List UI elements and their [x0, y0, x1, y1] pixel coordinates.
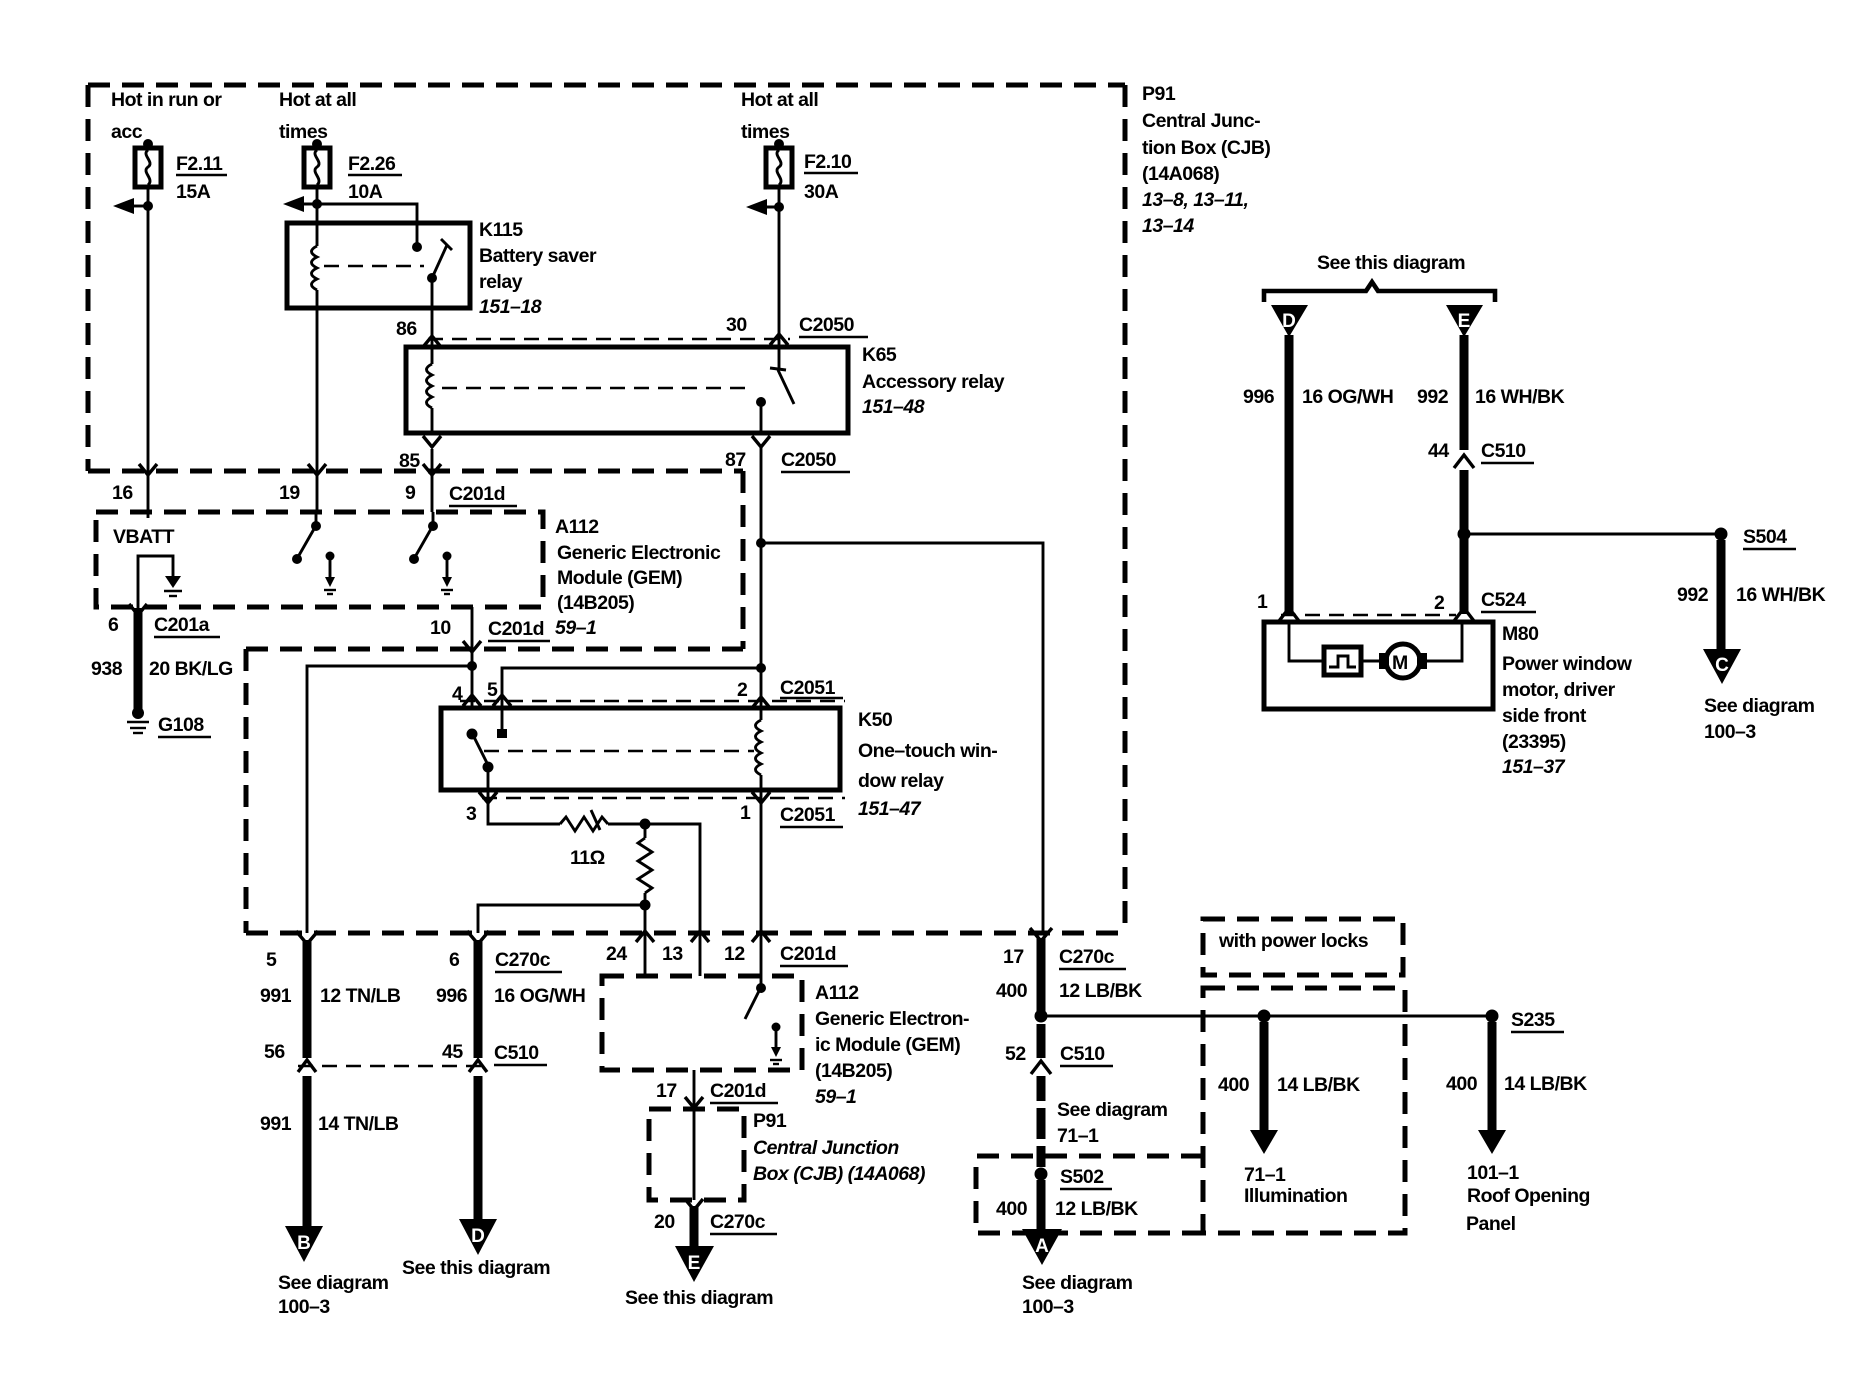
label See diagram 100-3 (under A): [1022, 1272, 1133, 1318]
label F2.26 / 10A: [348, 153, 402, 203]
wire 992 16 WH/BK (S504 to arrow C): [1717, 540, 1726, 651]
wire 938 20 BK/LG to ground: [129, 604, 147, 710]
svg-text:E: E: [1458, 311, 1471, 332]
svg-text:10: 10: [430, 617, 451, 639]
svg-text:C2050: C2050: [799, 314, 855, 336]
label K115 Battery saver relay 151-18: [479, 219, 597, 318]
A112 GEM switch (pin 12): [745, 983, 766, 1019]
svg-text:C270c: C270c: [710, 1211, 766, 1233]
svg-text:44: 44: [1428, 440, 1449, 462]
svg-text:17: 17: [1003, 946, 1024, 968]
svg-text:Hot at all: Hot at all: [741, 89, 818, 111]
node: Hot in run or acc label: [111, 89, 222, 143]
GEM switch at pin 9: [409, 512, 438, 564]
svg-text:Panel: Panel: [1466, 1213, 1516, 1235]
label 400 / 12 LB/BK (lower): [996, 1198, 1138, 1220]
svg-text:3: 3: [466, 803, 477, 825]
resistor 11 ohm (horizontal): [560, 810, 645, 831]
label See this diagram (under E): [625, 1287, 773, 1309]
label pin 9 C201d: [405, 482, 517, 506]
arrow A: [1022, 1229, 1062, 1265]
label 2 C2051: [737, 677, 843, 708]
svg-text:See diagram: See diagram: [1022, 1272, 1133, 1294]
wire 400 14 LB/BK roof opening panel arrow: [1478, 1022, 1506, 1154]
svg-text:100–3: 100–3: [1022, 1296, 1074, 1318]
svg-text:C201d: C201d: [780, 943, 836, 965]
wire 996 16 OG/WH (D to motor pin 1): [1285, 335, 1294, 614]
node junction to S235 branch: [1035, 1010, 1493, 1023]
svg-text:30: 30: [726, 314, 747, 336]
node splice S235: [1486, 1009, 1565, 1032]
svg-text:101–1: 101–1: [1467, 1162, 1519, 1184]
svg-text:F2.26: F2.26: [348, 153, 396, 175]
svg-text:45: 45: [442, 1041, 463, 1063]
wire: junction to C270c pin 6: [478, 905, 645, 933]
motor internal wiring: [1289, 622, 1462, 661]
svg-text:87: 87: [725, 449, 746, 471]
wire 996 16 OG/WH (to arrow D): [467, 931, 489, 1219]
node: Hot at all times label (left): [279, 89, 356, 143]
svg-text:B: B: [297, 1233, 311, 1254]
label 991 / 12 TN/LB: [260, 985, 401, 1007]
label 992 / 16 WH/BK: [1417, 386, 1565, 408]
label 400 / 14 LB/BK (roof): [1446, 1073, 1587, 1095]
wire: K65 pin 87 down to K50 pin 2: [760, 447, 763, 708]
svg-text:56: 56: [264, 1041, 285, 1063]
wire: GEM pin 10 down to K50 pin 4: [463, 607, 481, 708]
wire 992 16 WH/BK (E to motor pin 2): [1454, 335, 1474, 614]
svg-text:14 TN/LB: 14 TN/LB: [318, 1113, 399, 1135]
svg-text:12 LB/BK: 12 LB/BK: [1059, 980, 1142, 1002]
label 45 C510: [442, 1041, 547, 1065]
label K50 One-touch window relay 151-47: [858, 709, 997, 820]
fuse F2.26 10A: [304, 139, 330, 187]
power locks option dashed box: [1203, 988, 1405, 1233]
label A112 Generic Electronic Module (GEM) top: [555, 516, 721, 639]
svg-text:(14A068): (14A068): [1142, 163, 1219, 185]
label K50 pin 4: [452, 683, 463, 705]
svg-text:151–18: 151–18: [479, 296, 542, 318]
node junction illumination branch: [1258, 1010, 1271, 1023]
svg-text:71–1: 71–1: [1244, 1164, 1286, 1186]
svg-text:5: 5: [266, 949, 277, 971]
svg-text:Box (CJB) (14A068): Box (CJB) (14A068): [753, 1163, 925, 1185]
svg-text:S502: S502: [1060, 1166, 1104, 1188]
svg-text:acc: acc: [111, 121, 143, 143]
svg-text:K115: K115: [479, 219, 523, 241]
svg-text:16 WH/BK: 16 WH/BK: [1736, 584, 1826, 606]
label 17 C201d (below GEM): [656, 1080, 778, 1103]
svg-text:C510: C510: [1060, 1043, 1105, 1065]
svg-text:C510: C510: [1481, 440, 1526, 462]
svg-text:side front: side front: [1502, 705, 1587, 727]
wire: pin 13 down to GEM: [691, 931, 709, 976]
svg-text:20: 20: [654, 1211, 675, 1233]
svg-text:400: 400: [1218, 1074, 1250, 1096]
K50 fixed contact (pin 5): [497, 708, 507, 738]
with power locks dashed box: [1203, 919, 1403, 975]
label F2.10 / 30A: [804, 151, 858, 203]
label pin 5 C270c (bottom row): [266, 949, 277, 971]
label pin 17 C270c (right): [1003, 946, 1126, 969]
label 101-1 Roof Opening Panel: [1466, 1162, 1590, 1235]
svg-text:151–47: 151–47: [858, 798, 922, 820]
svg-text:71–1: 71–1: [1057, 1125, 1099, 1147]
svg-text:11Ω: 11Ω: [570, 847, 605, 869]
arrow D: [459, 1219, 497, 1255]
svg-text:15A: 15A: [176, 181, 211, 203]
svg-text:Generic Electron-: Generic Electron-: [815, 1008, 969, 1030]
label A112 Generic Electronic Module (GEM) bottom: [815, 982, 969, 1108]
connector C510 dashed line (bottom left): [298, 1065, 486, 1068]
svg-text:D: D: [1282, 311, 1296, 332]
wire 400 12 LB/BK (S502 to arrow A): [1037, 1180, 1046, 1229]
wire: pin 20 to arrow E: [685, 1199, 703, 1246]
svg-text:86: 86: [396, 318, 417, 340]
svg-text:1: 1: [740, 802, 751, 824]
label 87 C2050: [725, 449, 850, 472]
label K50 pin 5: [487, 679, 498, 701]
svg-text:52: 52: [1005, 1043, 1026, 1065]
svg-text:motor, driver: motor, driver: [1502, 679, 1616, 701]
arrow C: [1703, 649, 1741, 684]
svg-text:See this diagram: See this diagram: [625, 1287, 773, 1309]
svg-text:Central Junction: Central Junction: [753, 1137, 899, 1159]
svg-text:5: 5: [487, 679, 498, 701]
wire 991 12 TN/LB (to arrow B): [296, 931, 318, 1226]
svg-text:Power window: Power window: [1502, 653, 1633, 675]
svg-text:C524: C524: [1481, 589, 1526, 611]
svg-text:30A: 30A: [804, 181, 839, 203]
node junction on pin87 wire feeding C270c pin 17: [756, 538, 1043, 933]
svg-text:VBATT: VBATT: [113, 526, 175, 548]
label 3 C2051(implied): [466, 792, 497, 825]
A112 GEM bottom dashed box: [602, 976, 802, 1070]
svg-text:992: 992: [1417, 386, 1449, 408]
svg-text:Roof Opening: Roof Opening: [1467, 1185, 1590, 1207]
svg-text:See diagram: See diagram: [1704, 695, 1815, 717]
svg-text:938: 938: [91, 658, 123, 680]
label 52 C510: [1005, 1043, 1113, 1066]
svg-text:2: 2: [737, 679, 748, 701]
svg-text:100–3: 100–3: [278, 1296, 330, 1318]
thermal breaker: [1324, 647, 1381, 675]
label See diagram 100-3 (under C): [1704, 695, 1815, 743]
svg-text:996: 996: [436, 985, 468, 1007]
svg-text:C2050: C2050: [781, 449, 837, 471]
svg-text:M: M: [1392, 652, 1408, 674]
GEM switch at pin 19: [292, 512, 321, 564]
connector C2050 dashed line (top of K65): [428, 338, 790, 341]
svg-text:C2051: C2051: [780, 804, 836, 826]
svg-text:Hot at all: Hot at all: [279, 89, 356, 111]
svg-text:14 LB/BK: 14 LB/BK: [1277, 1074, 1360, 1096]
svg-text:C201d: C201d: [488, 618, 544, 640]
svg-text:C270c: C270c: [1059, 946, 1115, 968]
svg-text:400: 400: [996, 980, 1028, 1002]
arrow D (top, incoming): [1271, 305, 1308, 337]
wire: F2.26 output junction, left arrow, feed to K115 coil and switch: [283, 187, 422, 252]
node junction on E wire to S504: [1458, 528, 1722, 541]
svg-text:times: times: [279, 121, 328, 143]
svg-text:Hot in run or: Hot in run or: [111, 89, 222, 111]
svg-text:D: D: [471, 1226, 485, 1247]
node VBATT label: [113, 526, 175, 548]
K115 coil: [308, 246, 326, 512]
svg-text:6: 6: [449, 949, 460, 971]
svg-text:13–8, 13–11,: 13–8, 13–11,: [1142, 189, 1248, 211]
label motor pin 2 / C524: [1434, 589, 1536, 614]
motor M80 box: [1264, 622, 1493, 709]
P91 CJB small dashed box: [649, 1109, 744, 1200]
wire: F2.10 output junction with left arrow, down to K65 pin 30: [746, 187, 788, 347]
svg-text:S504: S504: [1743, 526, 1787, 548]
svg-text:9: 9: [405, 482, 416, 504]
bracket over D and E: [1264, 282, 1495, 302]
svg-text:E: E: [688, 1253, 701, 1274]
svg-text:24: 24: [606, 943, 627, 965]
K50 coil (pin 2 to 1): [756, 708, 762, 790]
A112 GEM contact with ground arrow: [770, 1023, 782, 1065]
svg-text:85: 85: [399, 450, 420, 472]
label motor pin 1: [1257, 591, 1268, 613]
svg-text:996: 996: [1243, 386, 1275, 408]
svg-text:F2.10: F2.10: [804, 151, 852, 173]
svg-text:tion Box (CJB): tion Box (CJB): [1142, 137, 1270, 159]
node junction at resistor output: [640, 819, 701, 934]
svg-text:P91: P91: [753, 1110, 787, 1132]
label 996 / 16 OG/WH: [436, 985, 585, 1007]
svg-text:991: 991: [260, 1113, 292, 1135]
label M80 Power window motor, driver side front (23395) 151-37: [1502, 623, 1633, 778]
svg-text:16 WH/BK: 16 WH/BK: [1475, 386, 1565, 408]
svg-text:A: A: [1035, 1236, 1049, 1257]
svg-text:59–1: 59–1: [815, 1086, 856, 1108]
motor M symbol: [1379, 644, 1427, 678]
svg-text:See this diagram: See this diagram: [1317, 252, 1465, 274]
svg-text:Module (GEM): Module (GEM): [557, 567, 682, 589]
svg-text:12 LB/BK: 12 LB/BK: [1055, 1198, 1138, 1220]
label 71-1 Illumination: [1244, 1164, 1347, 1207]
arrow B: [285, 1226, 323, 1262]
label pin 19: [279, 482, 300, 504]
label 11 ohm: [570, 847, 605, 869]
svg-text:151–37: 151–37: [1502, 756, 1566, 778]
svg-text:dow relay: dow relay: [858, 770, 944, 792]
connector C2051 dashed line (bottom): [482, 797, 845, 800]
svg-text:Accessory relay: Accessory relay: [862, 371, 1005, 393]
svg-text:151–48: 151–48: [862, 396, 925, 418]
resistor (vertical) to pin 24/6: [638, 824, 652, 911]
wire 400 14 LB/BK illumination arrow: [1250, 1022, 1278, 1154]
svg-text:13–14: 13–14: [1142, 215, 1194, 237]
svg-text:K50: K50: [858, 709, 893, 731]
label See this diagram (under D): [402, 1257, 550, 1279]
connector C2051 dashed line (top): [460, 700, 845, 703]
label pin 10 C201d 59-1: [430, 617, 550, 641]
svg-text:with power locks: with power locks: [1218, 930, 1369, 952]
label 996 / 16 OG/WH: [1243, 386, 1393, 408]
svg-text:16 OG/WH: 16 OG/WH: [494, 985, 585, 1007]
label P91 Central Junction Box (CJB) (14A068): [753, 1110, 925, 1185]
svg-text:S235: S235: [1511, 1009, 1555, 1031]
ground G108: [127, 707, 211, 737]
label 1 C2051: [740, 792, 843, 827]
wire: K50 pin 1 down through pin 12 to GEM switch: [752, 790, 770, 986]
svg-text:1: 1: [1257, 591, 1268, 613]
label 20 C270c: [654, 1211, 777, 1234]
label 938 / 20 BK/LG: [91, 658, 233, 680]
label 400 / 14 LB/BK (illumination): [1218, 1074, 1360, 1096]
svg-text:C270c: C270c: [495, 949, 551, 971]
svg-text:C201d: C201d: [710, 1080, 766, 1102]
label pin 6 C201a: [108, 614, 220, 637]
svg-text:12: 12: [724, 943, 745, 965]
svg-text:(14B205): (14B205): [557, 592, 634, 614]
label 400 / 12 LB/BK (upper): [996, 980, 1142, 1002]
GEM contact with ground arrow (pin 19 side): [324, 552, 336, 595]
K50 switch (pin 4 arm to pin 3): [467, 729, 494, 791]
label K65 Accessory relay 151-48: [862, 344, 1005, 418]
label 992 / 16 WH/BK (right): [1677, 584, 1826, 606]
svg-text:C201d: C201d: [449, 483, 505, 505]
label pin 86: [396, 318, 417, 340]
label See diagram 71-1 (mid): [1057, 1099, 1168, 1147]
svg-text:See diagram: See diagram: [278, 1272, 389, 1294]
K65 coil (pin 86 to 85): [423, 347, 441, 512]
svg-text:See this diagram: See this diagram: [402, 1257, 550, 1279]
label pin 85: [399, 450, 420, 472]
svg-text:12 TN/LB: 12 TN/LB: [320, 985, 401, 1007]
label 30 C2050: [726, 314, 868, 337]
GEM contact with ground arrow (pin 9 side): [441, 552, 453, 595]
arrow E: [675, 1246, 714, 1282]
K65 switch (pin 30 to 87): [752, 347, 794, 447]
svg-text:M80: M80: [1502, 623, 1539, 645]
wire: GEM pin 17 C201d stub: [685, 1070, 703, 1109]
relay K50 box: [441, 708, 840, 790]
svg-text:992: 992: [1677, 584, 1709, 606]
svg-text:One–touch win-: One–touch win-: [858, 740, 997, 762]
K115 switch arm: [423, 239, 452, 347]
svg-text:F2.11: F2.11: [176, 153, 223, 175]
wire: K50 pin 5 to pin 2 node: [493, 663, 766, 708]
svg-text:A112: A112: [555, 516, 599, 538]
wire 400 12 LB/BK (pin 17 down to junction): [1030, 928, 1052, 1016]
label pin 6 C270c (bottom row): [449, 949, 562, 972]
P91 Central Junction Box dashed outline (top): [88, 85, 1125, 933]
svg-text:10A: 10A: [348, 181, 383, 203]
svg-text:K65: K65: [862, 344, 897, 366]
VBATT internal ground circuit: [138, 556, 182, 609]
svg-text:16 OG/WH: 16 OG/WH: [1302, 386, 1393, 408]
svg-text:19: 19: [279, 482, 300, 504]
svg-text:100–3: 100–3: [1704, 721, 1756, 743]
svg-text:C2051: C2051: [780, 677, 836, 699]
svg-text:A112: A112: [815, 982, 859, 1004]
svg-text:G108: G108: [158, 714, 204, 736]
svg-text:Generic Electronic: Generic Electronic: [557, 542, 721, 564]
svg-text:P91: P91: [1142, 83, 1176, 105]
A112 GEM inner dashed box: [96, 512, 543, 607]
svg-text:400: 400: [996, 1198, 1028, 1220]
S502 option dashed box: [976, 1156, 1203, 1233]
svg-text:C: C: [1715, 655, 1729, 676]
svg-text:991: 991: [260, 985, 292, 1007]
label P91 Central Junction Box top right: [1142, 83, 1270, 237]
wire: branch to C270c pin 5: [307, 666, 472, 933]
relay K65 box: [406, 347, 848, 433]
arrow E (top, incoming): [1446, 305, 1483, 337]
label See this diagram (top right): [1317, 252, 1465, 274]
wire: junction down to pin 24: [636, 905, 654, 976]
svg-text:13: 13: [662, 943, 683, 965]
svg-text:C201a: C201a: [154, 614, 210, 636]
node splice S502: [1035, 1166, 1113, 1189]
label 56 (C510): [264, 1041, 285, 1063]
svg-text:20 BK/LG: 20 BK/LG: [149, 658, 233, 680]
svg-text:See diagram: See diagram: [1057, 1099, 1168, 1121]
svg-text:C510: C510: [494, 1042, 539, 1064]
wire: K50 pin 3 to 11-ohm resistor: [488, 790, 560, 824]
label pin 16 C201d: [112, 482, 133, 504]
svg-text:ic Module (GEM): ic Module (GEM): [815, 1034, 960, 1056]
svg-text:16: 16: [112, 482, 133, 504]
wire: 52 C510 segment (dashed thick) to S502: [1031, 1024, 1051, 1167]
relay K115 box: [287, 223, 470, 308]
label See diagram 100-3 (under B): [278, 1272, 389, 1318]
svg-text:Central Junc-: Central Junc-: [1142, 110, 1260, 132]
svg-text:6: 6: [108, 614, 119, 636]
svg-text:2: 2: [1434, 592, 1445, 614]
label 44 C510: [1428, 440, 1534, 463]
connector C524 dashed line: [1279, 608, 1474, 621]
svg-text:14 LB/BK: 14 LB/BK: [1504, 1073, 1587, 1095]
fuse F2.11 15A: [135, 139, 161, 187]
svg-text:relay: relay: [479, 271, 523, 293]
label pins 24 13 12 C201d (bottom row): [606, 943, 848, 966]
svg-text:59–1: 59–1: [555, 617, 596, 639]
svg-text:17: 17: [656, 1080, 677, 1102]
svg-text:Illumination: Illumination: [1244, 1185, 1347, 1207]
svg-text:Battery saver: Battery saver: [479, 245, 597, 267]
wire: F2.11 output with junction and left arrow: [113, 187, 157, 518]
node splice S504: [1715, 526, 1797, 549]
node: Hot at all times label (right): [741, 89, 818, 143]
svg-text:(23395): (23395): [1502, 731, 1566, 753]
label 991 / 14 TN/LB: [260, 1113, 399, 1135]
fuse F2.10 30A: [766, 139, 792, 187]
label F2.11 / 15A: [176, 153, 227, 203]
svg-text:times: times: [741, 121, 790, 143]
svg-text:(14B205): (14B205): [815, 1060, 892, 1082]
svg-text:400: 400: [1446, 1073, 1478, 1095]
